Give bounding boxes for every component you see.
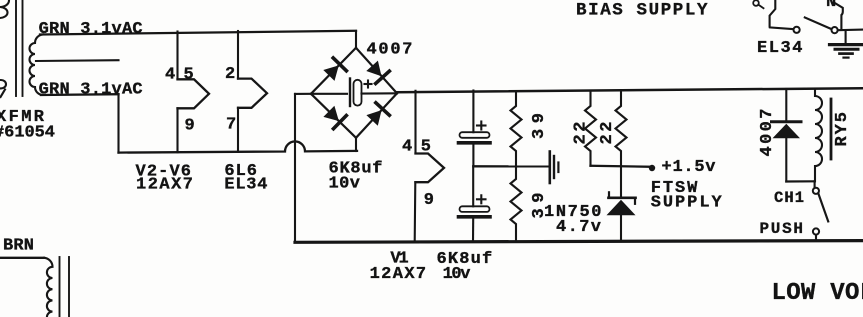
svg-text:10v: 10v <box>443 265 471 284</box>
svg-text:2: 2 <box>225 65 235 84</box>
svg-text:GRN 3.1vAC: GRN 3.1vAC <box>39 81 143 100</box>
svg-text:12AX7: 12AX7 <box>370 265 427 284</box>
svg-text:4.7v: 4.7v <box>556 218 601 237</box>
svg-text:9: 9 <box>424 191 434 210</box>
svg-text:LOW VOLTAGE: LOW VOLTAGE <box>772 280 863 307</box>
svg-text:GRN 3.1vAC: GRN 3.1vAC <box>39 20 143 39</box>
svg-text:EL34: EL34 <box>224 176 267 195</box>
svg-text:22: 22 <box>598 122 617 145</box>
svg-text:4007: 4007 <box>367 41 413 60</box>
svg-text:BRN: BRN <box>3 237 34 256</box>
svg-text:4007: 4007 <box>758 109 777 157</box>
svg-text:N: N <box>826 0 836 12</box>
svg-text:12AX7: 12AX7 <box>136 176 193 195</box>
svg-text:EL34: EL34 <box>757 39 803 58</box>
svg-text:5: 5 <box>184 65 194 84</box>
svg-text:RY5: RY5 <box>833 112 852 147</box>
svg-text:4: 4 <box>165 65 175 84</box>
svg-text:SUPPLY: SUPPLY <box>651 194 723 213</box>
svg-text:BIAS SUPPLY: BIAS SUPPLY <box>576 0 708 20</box>
svg-text:39: 39 <box>530 113 549 139</box>
svg-text:10v: 10v <box>329 175 361 194</box>
svg-text:9: 9 <box>185 117 195 136</box>
svg-text:7: 7 <box>226 116 236 135</box>
svg-text:4: 4 <box>402 137 412 156</box>
svg-text:#61054: #61054 <box>0 124 55 143</box>
svg-text:PUSH: PUSH <box>760 220 804 238</box>
svg-text:CH1: CH1 <box>774 189 804 207</box>
svg-text:+1.5v: +1.5v <box>662 158 716 177</box>
svg-text:5: 5 <box>421 138 431 157</box>
svg-text:22: 22 <box>572 122 591 145</box>
